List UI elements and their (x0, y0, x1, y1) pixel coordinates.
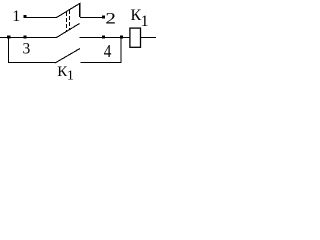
svg-text:3: 3 (23, 40, 31, 57)
svg-text:1: 1 (141, 13, 149, 30)
svg-text:1: 1 (67, 69, 74, 84)
svg-text:1: 1 (12, 8, 20, 25)
svg-text:4: 4 (104, 41, 112, 61)
svg-text:2: 2 (105, 10, 116, 27)
